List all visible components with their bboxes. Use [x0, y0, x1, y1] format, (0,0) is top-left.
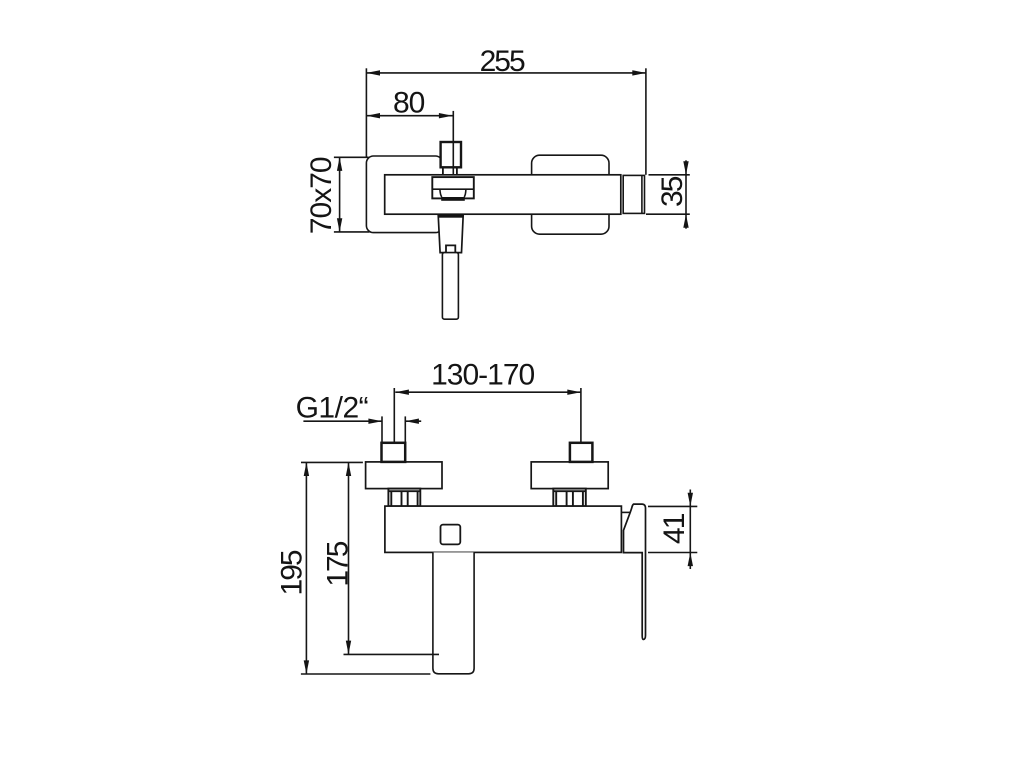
cartridge collar right curve — [464, 189, 466, 197]
lever to bar connector line — [621, 511, 630, 513]
left mounting block — [366, 462, 442, 489]
dim 80 extension line right (through knob) — [452, 111, 454, 175]
dim 175 arrow bottom — [346, 641, 351, 655]
G1/2 arrow left (outside pointing right) — [368, 419, 382, 424]
handle shank dark top band — [438, 214, 463, 217]
dim 70x70 top extension — [334, 156, 369, 158]
svg-text:80: 80 — [393, 87, 425, 120]
svg-text:35: 35 — [656, 176, 689, 207]
dim 35 arrow bottom (outside) — [683, 214, 688, 228]
cover for flange edge under knob stem — [439, 167, 443, 174]
wall flange left (70x70) — [366, 156, 442, 233]
svg-text:175: 175 — [322, 541, 355, 586]
dim 130-170 right extension — [580, 388, 582, 443]
dim 35 top extension — [649, 174, 690, 176]
dim 255 line — [366, 72, 646, 74]
dim 255 extension line right — [645, 68, 647, 175]
dim 35 line — [685, 160, 687, 228]
dim 35 bottom extension — [646, 213, 690, 215]
G1/2 left extension — [381, 416, 383, 442]
svg-text:255: 255 — [480, 45, 525, 78]
dim 80 line — [366, 115, 452, 117]
dim 130-170 left extension — [393, 388, 395, 443]
dim 70x70 bottom extension — [334, 231, 370, 233]
dim 195 bottom extension — [301, 673, 431, 675]
dim 175 bottom extension — [344, 653, 440, 655]
handle shank tab — [446, 245, 455, 252]
svg-text:195: 195 — [275, 550, 308, 595]
diverter knob — [441, 142, 461, 167]
G1/2 arrow right (outside pointing left) — [405, 419, 419, 424]
dim 70x70 arrow bottom — [337, 218, 342, 232]
left inlet stub G1/2 — [382, 443, 406, 462]
dim 130-170 arrow left — [395, 390, 409, 395]
wall flange right (70x70) — [532, 155, 609, 234]
handle grip tube (top view) — [442, 253, 458, 320]
body bar (top view) — [385, 175, 621, 214]
cartridge escutcheon box — [432, 177, 474, 198]
dim 130-170 arrow right — [567, 390, 581, 395]
dim 255 arrow left — [366, 70, 380, 75]
dim 41 arrow bottom (outside) — [688, 553, 693, 567]
dim 41 bottom extension — [648, 552, 697, 554]
dim 195/175 shared top extension — [301, 461, 363, 463]
svg-text:G1/2“: G1/2“ — [296, 392, 369, 425]
cartridge inner line — [432, 188, 474, 190]
dim 175 arrow top — [346, 462, 351, 476]
dim 41 top extension — [648, 505, 697, 507]
dim 255 extension line left — [365, 68, 367, 157]
svg-text:70x70: 70x70 — [305, 157, 338, 234]
lever handle (front view) — [624, 504, 646, 639]
G1/2 dim tail right — [405, 420, 421, 422]
dim 70x70 arrow top — [337, 157, 342, 171]
dim 41 arrow top (outside) — [688, 493, 693, 507]
cartridge dark bottom band — [441, 197, 465, 201]
dim 130-170 line — [395, 391, 581, 393]
diverter knob stem — [443, 167, 457, 174]
dim 255 arrow right — [632, 70, 646, 75]
dim 70x70 line — [339, 157, 341, 232]
svg-text:130-170: 130-170 — [431, 359, 534, 392]
spout (front view) — [433, 552, 474, 673]
cartridge collar left curve — [440, 189, 442, 197]
logo square on bar — [441, 525, 461, 545]
right mounting block — [531, 462, 608, 489]
end cap inner line — [641, 175, 643, 213]
right inlet stub G1/2 — [570, 443, 593, 462]
dim 35 arrow top (outside) — [683, 161, 688, 175]
right hex nut — [553, 489, 586, 507]
svg-text:41: 41 — [658, 513, 691, 544]
dim 80 arrow left — [366, 113, 380, 118]
body bar (bottom view) — [385, 506, 622, 552]
left hex nut — [388, 489, 420, 507]
handle shank below bar (top view) — [438, 215, 463, 253]
G1/2 right extension — [404, 416, 406, 442]
dim 195 arrow top — [304, 462, 309, 476]
spout end cap — [623, 175, 644, 213]
dim 175 line — [348, 462, 350, 654]
dim 195 arrow bottom — [304, 660, 309, 674]
dim 41 line — [689, 490, 691, 570]
dim 80 arrow right — [439, 113, 453, 118]
G1/2 dim tail left — [303, 420, 382, 422]
dim 195 line — [305, 462, 307, 674]
